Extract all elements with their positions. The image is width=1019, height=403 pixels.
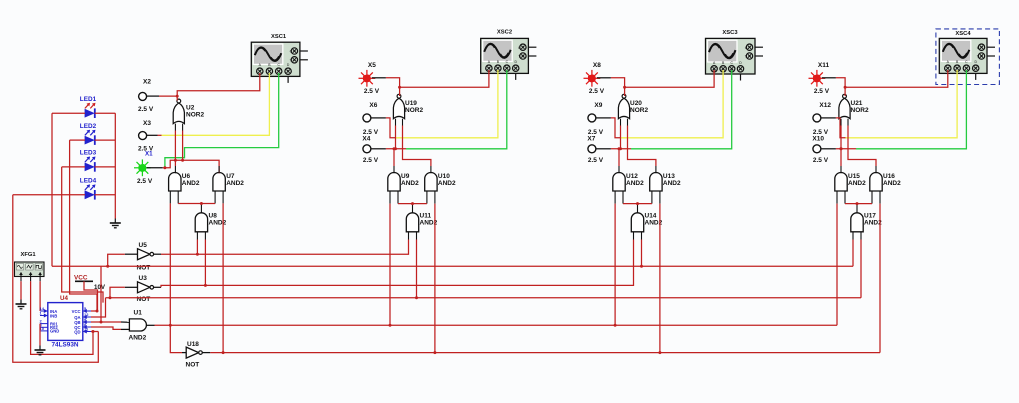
svg-text:AND2: AND2 <box>663 180 681 187</box>
svg-text:C: C <box>745 46 748 50</box>
svg-text:U12: U12 <box>626 173 638 180</box>
wire X7 to scope ch C (green) and U20 inputs <box>596 70 732 149</box>
svg-text:XSC3: XSC3 <box>722 30 738 36</box>
wire U8 input right from H3 <box>204 240 206 286</box>
svg-text:U2: U2 <box>186 105 195 112</box>
AND gate U13 <box>650 173 681 192</box>
svg-text:U18: U18 <box>187 341 199 348</box>
wire bus H5 U1 output enable net <box>146 324 837 327</box>
svg-text:XSC2: XSC2 <box>497 30 512 36</box>
probe X11 (lit red) <box>809 62 830 95</box>
NOR gate U20 <box>618 94 648 118</box>
wire LED4 anode <box>13 194 85 196</box>
svg-text:X8: X8 <box>593 62 601 69</box>
svg-text:NOT: NOT <box>186 362 200 369</box>
svg-text:2.5 V: 2.5 V <box>364 88 380 95</box>
wire bus H2 QB net <box>52 265 853 267</box>
AND gate U17 <box>851 213 882 232</box>
probe X7 <box>587 136 603 165</box>
svg-text:C: C <box>977 46 980 50</box>
svg-text:X3: X3 <box>143 120 151 127</box>
wire U16 input right riser to H6 <box>879 191 881 353</box>
wire U10 input right riser to H6 <box>434 191 436 353</box>
AND gate U7 <box>213 173 244 192</box>
svg-text:U10: U10 <box>438 173 450 180</box>
probe X1 (lit green) <box>134 151 153 186</box>
wire scope XSC1 channel B (yellow) to X3 <box>146 73 269 135</box>
wire U11 output tie to U9/U10 inputs <box>398 191 427 213</box>
svg-text:U9: U9 <box>401 173 410 180</box>
svg-text:74LS93N: 74LS93N <box>52 342 79 349</box>
svg-text:NOR2: NOR2 <box>186 112 204 119</box>
svg-text:GND: GND <box>50 329 59 334</box>
svg-text:U16: U16 <box>883 173 895 180</box>
wire bus H4 QA net <box>106 297 862 299</box>
wire U4 QD to LED4 wrap <box>91 330 98 333</box>
svg-text:U15: U15 <box>848 173 860 180</box>
LED LED1 (lit) <box>80 96 97 118</box>
svg-text:AND2: AND2 <box>129 335 147 342</box>
wire U2 input left / U6 output <box>174 124 177 174</box>
NOT gate U5 <box>137 242 154 272</box>
wire LED cathode ground bus <box>114 113 116 218</box>
wire U20 input right to U13 output <box>628 119 656 174</box>
svg-text:U5: U5 <box>139 242 148 249</box>
wire LED3 riser to chip <box>62 167 103 303</box>
svg-text:U6: U6 <box>182 173 191 180</box>
wire X2 to U2 output node <box>146 95 179 98</box>
wire U6 input left riser to H5 and U18 input <box>170 191 186 353</box>
wire U20 input left to X7 net and U12 output <box>618 119 623 174</box>
svg-text:X2: X2 <box>143 79 151 86</box>
wire U17 input pin stubs <box>853 232 861 240</box>
svg-text:NOR2: NOR2 <box>405 107 423 114</box>
svg-text:2.5 V: 2.5 V <box>137 178 153 185</box>
svg-text:LED2: LED2 <box>80 123 97 130</box>
svg-text:C: C <box>290 50 293 54</box>
oscilloscope XSC3 <box>706 30 764 81</box>
svg-text:NOT: NOT <box>137 265 151 272</box>
wire XFG1 sync pin wrap to chip <box>31 281 93 354</box>
oscilloscope XSC1 <box>251 34 308 83</box>
svg-text:XSC1: XSC1 <box>271 34 287 40</box>
wire U12 input left riser from H5 <box>614 191 616 325</box>
wire XFG1 common pin to ground <box>20 281 22 299</box>
wire VCC to U4 pin 5 <box>84 281 98 311</box>
wire U4 QC to U1 input B <box>91 327 129 329</box>
wire U11 input pin stubs <box>409 232 417 240</box>
AND gate U9 <box>388 173 419 192</box>
wire U14 input right from H2 <box>640 240 643 268</box>
wire X9 to scope ch B (yellow) <box>596 70 723 138</box>
svg-text:2.5 V: 2.5 V <box>589 88 605 95</box>
wire U8 input pin stubs <box>197 232 205 240</box>
probe X9 <box>588 102 604 136</box>
wire X8 to scope ch A (red) and U20 output <box>597 70 714 96</box>
wire bus H6 U18 output net <box>202 351 880 354</box>
probe X12 <box>813 102 831 136</box>
wire X12 to scope ch B (yellow) <box>821 70 957 138</box>
svg-text:C: C <box>518 46 521 50</box>
wire LED1 to bus H2 <box>51 113 53 266</box>
svg-text:X7: X7 <box>587 136 595 143</box>
wire U17 output tie to U15/U16 inputs <box>845 191 872 213</box>
svg-text:AND2: AND2 <box>864 220 882 227</box>
wire bus H1 U5 output to U8 and U11 inputs <box>154 240 409 256</box>
wire LED1 anode <box>52 112 85 114</box>
svg-text:2.5 V: 2.5 V <box>588 157 604 164</box>
wire U3 input from QA bus <box>109 287 138 299</box>
svg-text:NOT: NOT <box>137 296 151 303</box>
svg-text:2.5 V: 2.5 V <box>138 106 154 113</box>
wire U4 reset pins to ground <box>39 324 41 346</box>
wire XFG1 output to U4 clock input INA <box>39 281 41 311</box>
wire U19 input right to U10 output <box>403 119 431 174</box>
probe X6 <box>363 102 379 136</box>
ground for XFG1 <box>16 300 27 309</box>
wire LED1 cathode to ground bus <box>95 112 116 114</box>
wire X5 to scope ch A (red) and U19 output <box>372 70 489 96</box>
svg-text:2.5 V: 2.5 V <box>813 157 829 164</box>
NOR gate U19 <box>393 94 423 118</box>
AND gate U11 <box>406 213 437 232</box>
LED LED3 <box>80 150 97 172</box>
wire scope XSC1 channel C (green) to X1 <box>165 73 279 167</box>
NOT gate U18 <box>186 341 203 369</box>
svg-text:AND2: AND2 <box>401 180 419 187</box>
wire U15 input left riser from H5 <box>836 191 838 325</box>
AND gate U16 <box>870 173 901 192</box>
svg-text:AND2: AND2 <box>626 180 644 187</box>
svg-text:X1: X1 <box>145 151 153 158</box>
svg-text:X12: X12 <box>819 102 831 109</box>
wire U7 output pin stub <box>218 166 220 173</box>
wire U13 input right riser to H6 <box>659 191 661 353</box>
svg-text:2.5 V: 2.5 V <box>814 88 830 95</box>
svg-text:X6: X6 <box>369 102 377 109</box>
wire U21 input left to X10 net and U15 output <box>840 119 843 174</box>
AND gate U10 <box>425 173 456 192</box>
svg-text:X11: X11 <box>818 62 830 69</box>
ground for U4 <box>35 346 46 355</box>
svg-text:U21: U21 <box>851 100 863 107</box>
svg-text:VCC: VCC <box>74 275 88 282</box>
wire LED4 wrap to QD <box>13 195 99 362</box>
wire U7 input right riser to H6 <box>222 191 224 353</box>
AND gate U15 <box>835 173 866 192</box>
oscilloscope XSC2 <box>481 30 537 80</box>
IC U4 74LS93N counter <box>40 295 92 349</box>
svg-text:U11: U11 <box>420 213 432 220</box>
ground for LED bus <box>110 219 121 228</box>
wire U2 input right stub <box>181 124 184 162</box>
svg-text:U13: U13 <box>663 173 675 180</box>
svg-text:U1: U1 <box>134 310 143 317</box>
svg-text:XFG1: XFG1 <box>21 252 37 258</box>
svg-text:X9: X9 <box>594 102 602 109</box>
NOR gate U2 <box>173 99 204 124</box>
probe X10 <box>812 136 828 165</box>
wire LED3 anode <box>62 166 85 168</box>
wire U21 input right to U16 output <box>848 119 876 174</box>
svg-text:LED4: LED4 <box>80 178 97 185</box>
AND gate U8 <box>195 213 226 232</box>
wire scope XSC1 channel A (red) to U2 output and X2 <box>177 73 260 101</box>
NOR gate U21 <box>839 94 869 118</box>
probe X2 <box>138 79 154 114</box>
power VCC 10V <box>74 275 106 292</box>
svg-text:AND2: AND2 <box>438 180 456 187</box>
wire U14 input pin stubs <box>634 232 642 240</box>
probe X3 <box>138 120 154 153</box>
svg-text:AND2: AND2 <box>182 180 200 187</box>
oscilloscope XSC4 (selected) <box>936 29 1000 85</box>
svg-text:U3: U3 <box>139 275 148 282</box>
wire U17 input left from H2 <box>852 240 854 267</box>
svg-text:X10: X10 <box>812 136 824 143</box>
wire U11 input right from H4 <box>415 240 418 300</box>
svg-text:U19: U19 <box>405 100 417 107</box>
svg-text:QD: QD <box>74 329 80 334</box>
svg-text:U17: U17 <box>864 213 876 220</box>
wire U17 input right from H4 <box>860 240 862 298</box>
wire X6 to scope ch B (yellow) <box>371 70 498 138</box>
LED LED2 <box>80 123 97 145</box>
svg-text:X5: X5 <box>368 62 376 69</box>
wire X11 to scope ch A (red) and U21 output <box>822 70 948 96</box>
wire U4 QA to bus H4 <box>91 298 106 317</box>
svg-text:VCC: VCC <box>72 309 81 314</box>
AND gate U1 <box>129 310 147 342</box>
AND gate U12 <box>613 173 644 192</box>
probe X4 <box>362 136 378 165</box>
wire U14 output tie to U12/U13 inputs <box>623 191 652 213</box>
wire LED2 anode <box>70 139 85 141</box>
svg-text:XSC4: XSC4 <box>955 31 971 37</box>
svg-text:NOR2: NOR2 <box>630 107 648 114</box>
wire LED3 cathode to ground bus <box>95 166 116 168</box>
svg-text:U4: U4 <box>60 295 68 302</box>
svg-text:LED1: LED1 <box>80 96 97 103</box>
svg-text:U20: U20 <box>630 100 642 107</box>
wire LED2 cathode to ground bus <box>95 139 116 141</box>
wire X4 to scope ch C (green) and U19 inputs <box>371 70 507 149</box>
svg-text:AND2: AND2 <box>848 180 866 187</box>
wire U4 QB to bus H2 and U1 input A <box>91 266 129 323</box>
svg-text:AND2: AND2 <box>226 180 244 187</box>
svg-text:U8: U8 <box>209 213 218 220</box>
AND gate U14 <box>631 213 662 232</box>
svg-text:2.5 V: 2.5 V <box>363 157 379 164</box>
wire X10 to scope ch C (green) and U21 inputs <box>821 70 966 149</box>
wire X1 to U2 inputs and U6/U7 outputs <box>147 160 220 173</box>
svg-text:LED3: LED3 <box>80 150 97 157</box>
LED LED4 <box>80 178 97 200</box>
wire U9 input left riser from H5 <box>389 191 391 325</box>
svg-text:INB: INB <box>50 313 57 318</box>
svg-text:AND2: AND2 <box>209 220 227 227</box>
probe X8 (lit red) <box>584 62 605 95</box>
NOT gate U3 <box>137 275 154 303</box>
function generator XFG1 <box>15 252 45 281</box>
wire U8 input left from H1 <box>196 240 198 255</box>
wire U5 input from QB bus <box>106 254 137 268</box>
wire U8 output tie to U6/U7 inputs <box>178 191 215 213</box>
svg-text:NOR2: NOR2 <box>851 107 869 114</box>
svg-text:U7: U7 <box>226 173 235 180</box>
svg-text:AND2: AND2 <box>883 180 901 187</box>
wire LED2 riser to chip <box>70 140 99 312</box>
wire bus H3 U3 output to U8 and U14 inputs <box>154 240 634 288</box>
wire U19 input left to X4 net and U9 output <box>393 119 398 174</box>
AND gate U6 <box>169 173 200 191</box>
svg-text:X4: X4 <box>362 136 370 143</box>
probe X5 (lit red) <box>359 62 380 95</box>
svg-text:U14: U14 <box>645 213 657 220</box>
wire LED4 cathode to ground bus <box>95 194 116 196</box>
